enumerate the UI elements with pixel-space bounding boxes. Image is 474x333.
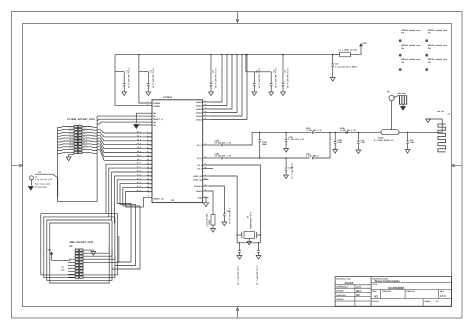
wire P1 right rail [96,116,98,202]
svg-text:C840: C840 [262,143,267,146]
wires P1_x bus down [106,162,146,223]
pin AVDD1 [196,103,211,107]
pin P2_3 [198,166,209,170]
pin XOSC_Q2 [193,173,208,177]
fiducial FID3 [399,44,421,56]
svg-text:1.7.0: 1.7.0 [440,295,446,298]
wire RF_P to top line [224,132,260,145]
pin DC (left group 2) [147,115,157,118]
wire NC pins to ground [136,113,146,123]
svg-text:B_1_R8Q_2POR(_1.0: B_1_R8Q_2POR(_1.0 [374,139,393,142]
connector P5 (RF test point) [387,91,395,101]
pin P2_4 [198,162,209,166]
svg-text:A1: A1 [448,113,450,116]
power symbol VDD (P2) [48,248,76,260]
pin P0_3 [146,143,152,146]
pin AVDD6 [196,99,211,103]
title block [335,277,451,307]
wires P1 left fan [57,127,74,154]
connector P5 ground pins (comb) [394,92,407,110]
svg-text:AVDD6: AVDD6 [196,101,202,104]
svg-text:XOSC_Q1: XOSC_Q1 [193,178,202,181]
wires P1 right fan [82,127,97,154]
svg-text:14: 14 [147,167,149,169]
svg-text:C10: C10 [335,63,338,66]
capacitor C251 (RF_P series) [215,140,232,147]
pin RF_P [197,142,208,146]
svg-text:XXXXX: XXXXX [345,282,354,285]
svg-text:DCOUPL: DCOUPL [194,185,203,188]
svg-text:C_PL_040_4P1_A_W: C_PL_040_4P1_A_W [274,68,277,88]
pin AVDD3 [196,110,211,114]
svg-text:X_(E_CX32M5MB): X_(E_CX32M5MB) [249,212,252,229]
pin P0_6 [146,155,152,158]
svg-text:C_PL_040_4P1_A_W: C_PL_040_4P1_A_W [286,68,289,88]
svg-text:P1 SMD_SOCKET_2X10: P1 SMD_SOCKET_2X10 [68,118,96,121]
svg-text:SMD_SOCKET_2X10: SMD_SOCKET_2X10 [70,241,94,244]
capacitor C3 (AVDD decoupling) [209,54,217,96]
svg-text:C340: C340 [337,141,342,144]
pin P1_3 [146,174,152,177]
capacitor C259 (antenna shunt) [405,132,415,153]
svg-text:SBT: SBT [356,290,361,293]
test loop TL1 [30,171,58,197]
svg-text:0.1W_M0_56K: 0.1W_M0_56K [206,213,209,227]
svg-text:20: 20 [147,190,149,192]
filter FL1 (balun/filter) [374,130,399,142]
inductor L1 (VDD ferrite bead) [333,49,357,57]
svg-text:C_040_4P1_1_W: C_040_4P1_1_W [288,138,303,141]
pin DD (left group 1) [147,112,157,115]
connector P1 (SMD_SOCKET_2X10) [68,118,96,154]
wire filter to antenna [399,131,442,133]
svg-text:19: 19 [147,186,149,188]
wires bus corners to right [112,204,144,270]
wire VDD rail [115,54,333,56]
svg-text:SIZE: SIZE [372,290,377,293]
pin DVDD1 [147,103,161,108]
pin RESET_N (left group 3) [147,118,163,121]
svg-text:C_040_47U_A_W: C_040_47U_A_W [228,208,231,224]
wires AVDD to rail (stairs) [211,54,248,120]
pin NC (left group 4) [147,121,157,124]
svg-text:C_040_4PL_L_W: C_040_4PL_L_W [291,163,294,179]
svg-text:C_PL_040_4P1_A_W: C_PL_040_4P1_A_W [214,68,217,88]
svg-text:DWG NO.: DWG NO. [407,290,416,293]
power symbol VDD (top right) [359,42,367,46]
capacitor C253 (shunt across lines) [259,132,267,159]
svg-text:C_PL_040_4P1_A_W: C_PL_040_4P1_A_W [257,68,260,88]
svg-text:FID02A_(width)_nom: FID02A_(width)_nom [401,29,421,32]
pin P1_1 [146,167,152,170]
capacitor C252 (RF_N series) [215,153,232,160]
wire RF_N line [209,157,221,159]
svg-text:FID02A_(width)_nom: FID02A_(width)_nom [401,58,421,61]
svg-text:L_IRGE_TQ_040: L_IRGE_TQ_040 [342,49,357,52]
fiducial FID1 [399,29,421,42]
svg-text:SHEET: SHEET [425,300,432,303]
wire DVDD2 branch [139,55,152,103]
wire top RF line [260,131,312,133]
pin AVDD5 [196,117,211,121]
wire AVDD sub-rail [245,55,247,72]
svg-text:0T_040_4PL_L_W: 0T_040_4PL_L_W [215,141,232,144]
pin XOSC_Q1 [193,177,208,181]
ground (IC GND pin) [203,198,208,207]
svg-text:12: 12 [147,159,149,161]
wire loop 2 (around P2) [44,217,115,278]
wire DC to P1 [97,119,146,121]
pin RESET_IN [147,195,152,197]
ground (antenna) [426,119,443,124]
pin P0_1 [146,135,152,138]
wire RF_N bottom line [224,157,310,159]
svg-text:P2_3: P2_3 [198,167,202,170]
svg-text:15: 15 [147,170,149,172]
svg-text:ISSUED: ISSUED [336,298,344,301]
pin P1_4 [146,178,153,181]
wire loop 1 (around P2) [41,214,118,275]
svg-text:C_040_4P1_1_W: C_040_4P1_1_W [340,129,355,132]
ground (P1) [66,154,74,160]
svg-text:APPROVALS: APPROVALS [336,286,348,289]
svg-text:L_040_3M3_2: L_040_3M3_2 [306,154,319,157]
svg-text:NN: NN [356,294,360,297]
wire RESET_IN run [144,197,147,207]
svg-text:21: 21 [148,195,150,197]
capacitor C255 (bottom shunt to gnd) [284,157,294,178]
inductor L253 (bottom series) [306,153,319,160]
svg-text:11: 11 [147,155,149,157]
svg-text:CC2533EM: CC2533EM [388,286,404,290]
pin P1_2 [146,170,152,173]
wire crystal bottom link [237,242,260,244]
svg-text:C_040_4P1_1_W: C_040_4P1_1_W [306,129,321,132]
svg-text:13: 13 [147,163,149,165]
pin RF_N [197,155,208,159]
pin P1_5 [146,182,152,185]
svg-text:CONTRACT NO.: CONTRACT NO. [336,277,351,280]
svg-text:16: 16 [147,174,149,176]
inductor L252 (top series) [306,127,321,134]
svg-text:RF_P: RF_P [197,144,203,147]
svg-text:FID02A_(width)_nom: FID02A_(width)_nom [428,44,448,47]
svg-text:AVDD1: AVDD1 [196,104,202,107]
pin P0_7 [146,159,152,162]
capacitor C10 (VDD filter) [330,55,356,82]
svg-text:A3: A3 [374,294,378,298]
pin AVDD4 [196,113,211,117]
capacitor C6 (AVDD decoupling) [281,54,289,96]
svg-text:0T_040_4PL_L_W: 0T_040_4PL_L_W [215,154,232,157]
pin NC (left group 5) [147,124,157,127]
svg-text:17: 17 [147,178,149,180]
net labels P2 [61,262,75,277]
pin P0_4 [146,147,153,150]
svg-text:GND: GND [198,197,203,200]
wire P2_3 stub [209,168,214,170]
capacitor C258 (series before filter) [340,127,355,134]
fiducial FID5 [399,58,421,71]
svg-text:FID02A_(width)_nom: FID02A_(width)_nom [401,44,421,47]
capacitor C272 (DCOUPL) [209,186,231,226]
wire RESET_N [97,122,146,124]
capacitor C5 (AVDD decoupling) [254,68,277,96]
svg-text:AVDD2: AVDD2 [196,108,202,111]
pin P1_7 [146,190,152,193]
wire RF_N joins top line [315,132,330,158]
capacitor C4 (AVDD decoupling) [246,68,260,96]
pin P1_0 [146,163,152,166]
capacitor C2 (DVDD decoupling) [139,68,155,96]
junction rail/C10 [332,54,333,55]
svg-text:AVDD5: AVDD5 [196,118,202,121]
svg-text:FID02A_(width)_nom: FID02A_(width)_nom [428,58,448,61]
capacitor C282 (crystal load) [256,242,261,285]
fiducial FID4 [426,44,448,56]
pin P0_0 [146,131,152,134]
capacitor C1 (DVDD decoupling) [115,68,130,96]
svg-text:AVDD3: AVDD3 [196,111,202,114]
svg-text:XOSC_Q2: XOSC_Q2 [193,175,202,178]
capacitor C256 (shunt to gnd) [333,132,342,153]
antenna A1 (meander PCB antenna) [437,110,450,152]
wire RF test tap [391,101,393,130]
svg-text:10: 10 [147,151,149,153]
wire DVDD1 branch [115,55,152,106]
svg-text:DVDD1: DVDD1 [153,105,161,108]
svg-text:FSCM NO.: FSCM NO. [382,290,392,293]
inductor L254 (shunt to gnd) [356,132,365,154]
svg-text:C_40_040_2PF_L_W: C_40_040_2PF_L_W [256,266,259,285]
svg-text:18: 18 [147,182,149,184]
svg-text:L1: L1 [339,49,341,52]
wire P1 loop bottom [57,201,97,203]
wire DD to P1 [97,115,146,117]
svg-text:DVDD2: DVDD2 [153,102,161,105]
ground (P2 pin1) [83,250,96,255]
wire RF_P line [209,144,221,146]
svg-text:DATE: DATE [356,286,362,289]
wire loop 4 (around P2) [50,223,109,283]
svg-text:FID02A_(width)_nom: FID02A_(width)_nom [428,29,448,32]
wire top line to balun [315,131,381,133]
svg-text:Place close to chip: Place close to chip [35,183,50,186]
svg-text:RF_N: RF_N [197,157,203,160]
svg-text:C_40_040_4PL_L_W: C_40_040_4PL_L_W [237,266,240,285]
pin P1_6 [146,186,152,189]
svg-text:L340: L340 [361,141,365,144]
svg-text:AVDD4: AVDD4 [196,115,203,118]
net labels P1 [69,126,86,149]
svg-text:RESET_IN: RESET_IN [153,198,164,201]
wires P2 right to loops [83,236,119,262]
svg-text:C_PL_040_4P1_3_W: C_PL_040_4P1_3_W [35,178,52,181]
wire P1 left rail [56,128,58,202]
ground (left pin group) [134,125,139,129]
svg-text:RESET_N: RESET_N [153,118,163,121]
pin P0_5 [146,151,152,154]
wire bead to VDD [351,47,362,55]
pin DCOUPL [194,183,208,187]
note (decoupling) [35,176,52,189]
svg-text:TITLE: TITLE [372,283,378,286]
connector P2 (SMD_SOCKET_2X10) [70,241,94,278]
pin P0_2 [146,139,152,142]
fiducial FID2 [426,29,448,42]
pin GND [198,195,209,199]
junction rail/DVDD2 [138,54,139,55]
svg-text:C_PL_040_4P1_A_W: C_PL_040_4P1_A_W [127,68,130,88]
op IC U1 CC2533 [152,96,203,203]
pin AVDD2 [196,106,211,110]
resistor R301 (RBIAS 56k) [206,191,216,232]
svg-text:VDD: VDD [362,42,367,45]
svg-text:C_PL_040_4P1_A_W: C_PL_040_4P1_A_W [151,68,154,88]
svg-text:CC2533: CC2533 [163,96,172,99]
crystal X1 (32MHz) [236,212,261,245]
capacitor C281 (crystal load) [237,242,242,285]
svg-text:RBIAS: RBIAS [196,190,203,193]
pin RBIAS [196,188,208,192]
fiducial FID6 [426,58,448,71]
svg-text:CHECKED: CHECKED [336,294,346,297]
svg-text:DRAWN: DRAWN [336,290,344,293]
pin DVDD2 [147,100,161,105]
svg-text:SCALE: SCALE [372,300,379,303]
capacitor C254 (top shunt to gnd) [284,132,304,152]
svg-text:for decoupling: for decoupling [35,186,47,189]
ground (TL1) [28,187,33,191]
wire XOSC_Q1 to crystal [209,176,238,243]
svg-text:Texas Instruments: Texas Instruments [375,279,401,283]
wire XOSC_Q2 to crystal [209,165,261,243]
svg-text:C_L10_040_0R_A_W500: C_L10_040_0R_A_W500 [335,65,357,68]
wire loop 3 (around P2) [47,220,112,280]
wires P0 bus to P1 [97,129,146,160]
